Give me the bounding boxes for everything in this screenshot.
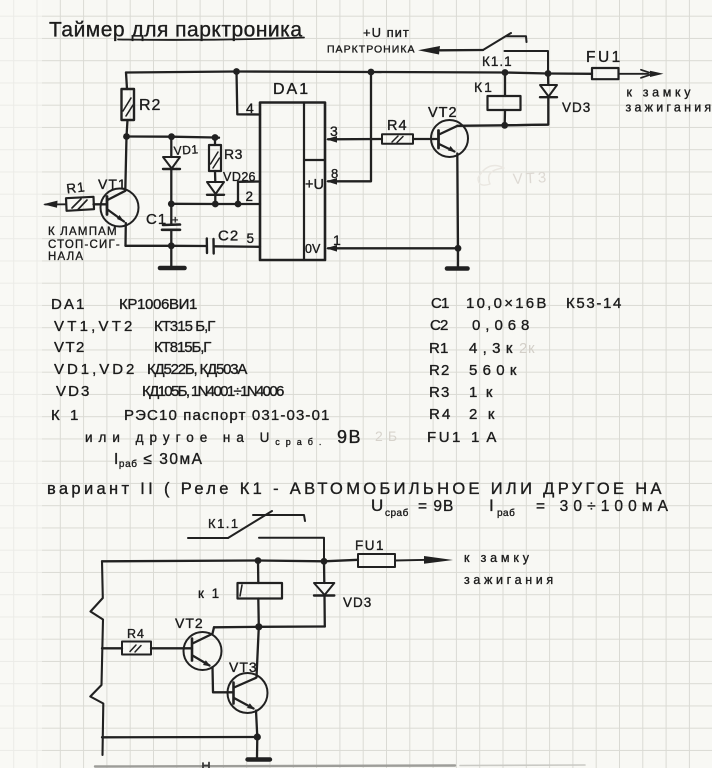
- fuse FU1: [586, 49, 623, 79]
- junction node bus-VD3: [545, 70, 552, 77]
- svg-text:VT2: VT2: [428, 105, 458, 121]
- svg-text:VT1: VT1: [98, 176, 127, 192]
- wire emitter-C2 bottom: [126, 245, 207, 247]
- junction K1-VT3 collector: [255, 623, 262, 630]
- svg-text:FU1: FU1: [427, 429, 461, 446]
- svg-text:КТ315 Б,Г: КТ315 Б,Г: [154, 318, 216, 335]
- svg-text:= 9В: = 9В: [418, 498, 454, 515]
- svg-text:КД522Б, КД503А: КД522Б, КД503А: [147, 361, 248, 378]
- diode VD1: [163, 142, 199, 169]
- svg-text:КД105Б, 1N4001÷1N4006: КД105Б, 1N4001÷1N4006: [142, 383, 285, 400]
- junction pin2-pin6: [235, 201, 242, 208]
- scan edge artifacts: [95, 763, 585, 768]
- svg-text:9В: 9В: [337, 427, 362, 447]
- svg-text:НАЛА: НАЛА: [48, 251, 84, 263]
- switch K1.1 bottom: [188, 511, 324, 561]
- svg-text:раб: раб: [497, 507, 515, 519]
- resistor R4 bottom: [102, 627, 151, 655]
- wire pin1 net: [326, 245, 458, 252]
- svg-text:6: 6: [249, 170, 256, 184]
- wire R3 top: [214, 138, 216, 146]
- relay coil K1 bottom: [198, 561, 282, 627]
- junction C1-bottom: [168, 242, 175, 249]
- svg-text:VD1: VD1: [173, 142, 199, 158]
- junction emitter-ground rail: [254, 733, 261, 740]
- svg-text:C1: C1: [146, 211, 167, 228]
- svg-text:R3: R3: [224, 146, 243, 162]
- svg-text:зажигания: зажигания: [626, 101, 712, 115]
- op-amp timer U1 DA1 box: [260, 81, 325, 260]
- wire VT3 emitter: [256, 711, 257, 738]
- wire pin2 net: [171, 203, 260, 205]
- svg-text:R1: R1: [429, 340, 449, 357]
- svg-text:DA1: DA1: [273, 81, 310, 98]
- wire VT1 base: [94, 203, 108, 205]
- wire R2 bottom: [127, 120, 128, 137]
- label к замку зажигания bottom: [464, 551, 554, 587]
- title underline: [118, 38, 304, 40]
- svg-text:R2: R2: [429, 362, 450, 379]
- svg-text:+: +: [172, 215, 178, 227]
- junction node bus-pin4: [233, 68, 240, 75]
- ground bottom: [248, 737, 271, 760]
- transistor VT3: [228, 659, 268, 713]
- diode VD3: [505, 74, 591, 126]
- svg-text:FU1: FU1: [355, 538, 385, 553]
- svg-text:+U: +U: [305, 177, 324, 193]
- svg-text:к 1: к 1: [198, 586, 221, 601]
- svg-text:C2: C2: [430, 317, 449, 334]
- wire VD2 cathode: [214, 195, 216, 204]
- ground C1: [160, 246, 185, 268]
- svg-text:К ЛАМПАМ: К ЛАМПАМ: [48, 226, 118, 238]
- svg-text:R4: R4: [387, 118, 408, 134]
- wire output with arrows: [619, 70, 664, 78]
- parts list right column: [427, 295, 622, 446]
- wire collector rail bottom: [214, 625, 325, 628]
- diode VD3 bottom: [314, 561, 372, 626]
- svg-text:0,068: 0,068: [472, 317, 530, 334]
- junction node A3: [212, 134, 219, 141]
- ghost watermark VT3: [512, 169, 549, 188]
- ghost swirl: [478, 166, 504, 186]
- wire pin6 net: [238, 182, 260, 205]
- heading вариант II: [47, 480, 669, 519]
- resistor R1: [66, 179, 94, 211]
- svg-text:R4: R4: [127, 627, 145, 641]
- wire VD1 cathode: [170, 169, 172, 204]
- ground VT2: [447, 248, 468, 268]
- svg-text:VT3: VT3: [512, 169, 549, 188]
- junction node bus-K1: [502, 69, 509, 76]
- capacitor C2: [207, 228, 260, 254]
- svg-text:зажигания: зажигания: [464, 573, 554, 587]
- svg-text:I: I: [489, 496, 494, 515]
- svg-text:К1: К1: [474, 79, 494, 95]
- wire top supply bus: [126, 72, 592, 74]
- svg-text:C1: C1: [431, 295, 450, 312]
- svg-text:К1.1: К1.1: [482, 54, 513, 69]
- svg-text:2: 2: [246, 189, 254, 204]
- transistor VT2: [428, 105, 468, 157]
- wire R3-VD2: [214, 171, 217, 182]
- svg-text:U: U: [371, 496, 383, 515]
- resistor R4: [382, 118, 413, 144]
- transistor VT2 bottom: [175, 615, 222, 670]
- junction pin2-VD2: [212, 201, 219, 208]
- fuse FU1 bottom: [355, 538, 395, 567]
- junction bus-VD3 bottom: [321, 558, 328, 565]
- wire VT2 emitter: [456, 154, 459, 249]
- wire VT1 emitter: [124, 223, 127, 246]
- svg-text:VT2: VT2: [175, 615, 204, 631]
- relay coil K1: [474, 73, 521, 126]
- svg-text:5: 5: [247, 231, 255, 246]
- svg-text:К53-14: К53-14: [566, 295, 622, 312]
- svg-text:R3: R3: [429, 384, 450, 401]
- junction pin1-VT2emitter: [455, 245, 462, 252]
- junction node A2: [168, 133, 175, 140]
- svg-text:0V: 0V: [305, 242, 321, 256]
- wire pin4 net: [237, 72, 261, 115]
- wire VT2 collector net: [458, 125, 549, 126]
- svg-text:R1: R1: [66, 179, 87, 196]
- wire R2 top: [126, 73, 127, 90]
- wire VT1 collector: [125, 137, 126, 191]
- junction bus-K1 bottom: [255, 557, 262, 564]
- svg-text:VT2: VT2: [54, 339, 85, 356]
- svg-text:R2: R2: [139, 97, 161, 114]
- svg-text:+U пит: +U пит: [363, 25, 410, 40]
- switch K1.1: [418, 33, 548, 73]
- parts list left column: [51, 296, 398, 470]
- svg-text:VD3: VD3: [562, 100, 591, 115]
- label к лампам стоп-сигнала: [48, 226, 121, 263]
- wire pin8 net: [326, 72, 371, 185]
- diode VD2: [207, 170, 249, 195]
- junction pin2-VD1: [168, 201, 175, 208]
- svg-text:ПАРКТРОНИКА: ПАРКТРОНИКА: [327, 44, 415, 56]
- wire VT2 emitter to VT3 base: [213, 667, 234, 692]
- svg-text:2к: 2к: [519, 340, 535, 357]
- svg-text:КТ815Б,Г: КТ815Б,Г: [154, 339, 212, 356]
- svg-text:DA1: DA1: [51, 296, 85, 313]
- label к замку зажигания: [626, 86, 712, 115]
- wire VT2 collector bottom: [213, 627, 215, 633]
- svg-text:VD3: VD3: [56, 383, 90, 400]
- wire bottom supply bus: [102, 560, 358, 562]
- svg-text:РЭС10 паспорт 031-03-01: РЭС10 паспорт 031-03-01: [124, 407, 330, 424]
- wire VT3 collector: [257, 627, 259, 678]
- wire node-A horizontal: [126, 137, 219, 138]
- svg-text:К1.1: К1.1: [208, 516, 240, 531]
- svg-text:FU1: FU1: [586, 49, 623, 66]
- wire left rail with break marks: [90, 561, 103, 755]
- resistor R3: [209, 145, 243, 171]
- svg-text:СТОП-СИГ-: СТОП-СИГ-: [48, 239, 121, 251]
- svg-text:VD1,VD2: VD1,VD2: [54, 361, 135, 378]
- svg-text:сраб: сраб: [385, 507, 409, 519]
- resistor R2: [122, 89, 162, 120]
- svg-text:R4: R4: [429, 406, 451, 423]
- transistor VT1: [98, 176, 139, 227]
- junction node A1: [123, 133, 130, 140]
- svg-text:VT3: VT3: [229, 659, 258, 675]
- wire VD1 anode: [170, 137, 172, 157]
- wire R4-VT2 base: [413, 138, 439, 140]
- svg-text:C2: C2: [218, 228, 239, 245]
- junction node bus-pin8: [368, 69, 375, 76]
- svg-text:2 Б: 2 Б: [375, 428, 398, 444]
- svg-text:КР1006ВИ1: КР1006ВИ1: [119, 296, 198, 313]
- capacitor C1: [146, 204, 180, 246]
- wire R1 lead with arrow: [43, 201, 66, 208]
- wire R4-VT2 base bottom: [151, 647, 192, 649]
- wire pin3 net: [326, 136, 382, 143]
- wire output bottom with arrow: [395, 556, 453, 564]
- svg-text:VD3: VD3: [343, 595, 372, 610]
- label +U пит парктроника: [327, 25, 415, 56]
- junction K1-collector: [501, 122, 508, 129]
- wire ground rail bottom: [102, 736, 257, 739]
